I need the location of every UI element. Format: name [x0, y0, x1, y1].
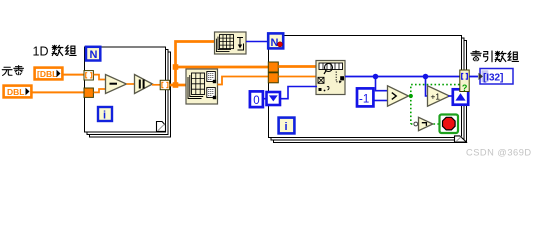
conditional indexing tunnel [460, 70, 469, 93]
svg-text:DBL: DBL [7, 87, 24, 97]
wire [DBL] to left loop tunnel [63, 74, 85, 76]
wire shift register left to search start index [281, 87, 318, 99]
dotted wire not to loop condition [434, 123, 441, 125]
svg-text:i: i [103, 110, 106, 122]
wire lower tunnel to search element input [278, 76, 317, 78]
branch to right loop upper tunnel [176, 66, 270, 69]
array max min function U3 [186, 69, 218, 104]
increment +1 function [428, 86, 450, 106]
svg-text:N: N [271, 37, 279, 49]
wire upper tunnel to search array input [278, 65, 317, 68]
loop condition stop terminal [440, 115, 459, 134]
greater? comparison [388, 86, 409, 106]
svg-text:i: i [285, 121, 288, 133]
i terminal loop2 [279, 118, 295, 134]
junction lower [173, 82, 179, 88]
N count terminal loop2 with coercion dot [268, 33, 283, 49]
dotted boolean wire up to conditional tunnel [411, 85, 460, 96]
boolean junction [409, 94, 413, 98]
for loop 2 (right) sheets [269, 36, 467, 143]
constant 0 initializer [250, 91, 263, 107]
wire -1 to greater bottom input [374, 100, 388, 102]
page fold right loop [455, 136, 467, 142]
svg-text:0: 0 [253, 95, 259, 107]
wire tunnel to subtract top [94, 75, 107, 80]
control DBL element terminal [4, 86, 32, 98]
label 元素 [2, 65, 23, 75]
junction upper [173, 64, 179, 70]
shift register left (down arrow) [267, 92, 281, 105]
wire subtract to abs [127, 83, 136, 85]
branch to array max min input [176, 84, 187, 87]
N count terminal loop1 [86, 47, 100, 61]
svg-text:-1: -1 [359, 94, 369, 106]
wire +1 to shift register right [448, 95, 453, 97]
junction 2 [423, 74, 429, 80]
wire tunnel to indicator [469, 76, 478, 78]
wire junction1 to greater top input [376, 77, 389, 91]
array trunk wire [170, 42, 215, 86]
not function [414, 117, 433, 130]
indicator I32 array [479, 69, 514, 85]
svg-text:[DBL: [DBL [37, 69, 57, 79]
shift register right (up arrow) [453, 89, 468, 104]
wire array size to N (i32) [246, 41, 268, 43]
output tunnel [] loop1 [160, 80, 169, 89]
label 1D 数组 [33, 45, 77, 59]
tunnel element input loop1 (solid) [84, 88, 93, 97]
svg-text:+1: +1 [431, 91, 441, 101]
constant -1 [357, 88, 373, 106]
search 1d array function U4 [316, 61, 345, 95]
svg-text:[I32]: [I32] [483, 72, 503, 83]
svg-text:1D: 1D [33, 45, 49, 59]
wire DBL to left loop tunnel [32, 91, 85, 93]
label 索引数组 [471, 51, 519, 62]
page fold left loop [157, 122, 166, 132]
for loop 1 (left) sheets [85, 47, 171, 137]
wire junction2 to +1 input [426, 77, 429, 97]
wire 0 to shift register left [263, 98, 268, 100]
wire tunnel to subtract bottom [94, 89, 107, 92]
array size function U2 [215, 32, 247, 54]
svg-text:N: N [90, 49, 98, 61]
junction 1 [373, 74, 379, 80]
upper tunnel loop2 (array in) [268, 62, 278, 72]
control [DBL] 1D array terminal [35, 68, 63, 80]
wire abs to output tunnel [152, 84, 161, 86]
lower tunnel loop2 (scalar in) [268, 73, 278, 83]
wire array max min to right loop lower tunnel [218, 77, 270, 85]
absolute value function [135, 75, 153, 94]
dotted boolean wire down to not [410, 96, 412, 124]
svg-text:CSDN @369D: CSDN @369D [466, 147, 532, 157]
tunnel [] input loop1 [84, 71, 93, 80]
svg-text:?: ? [462, 83, 468, 93]
i terminal loop1 [98, 107, 112, 122]
subtract function [106, 75, 127, 94]
main blue wire search output [345, 76, 460, 78]
